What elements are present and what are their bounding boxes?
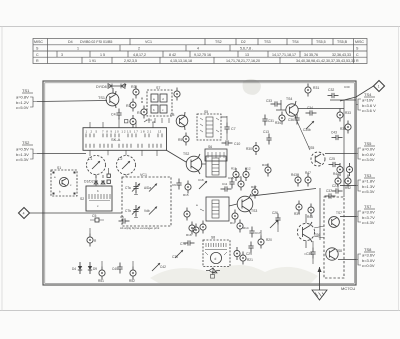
- svg-text:S7: S7: [156, 86, 160, 90]
- svg-text:C36: C36: [288, 118, 294, 122]
- capacitor C4: [111, 109, 122, 120]
- resistor R21: [240, 252, 253, 265]
- svg-text:R5: R5: [178, 138, 182, 142]
- resistor R15: [183, 181, 191, 198]
- resistor R3: [131, 85, 139, 99]
- capacitor C8a: [125, 120, 128, 123]
- wire C1 lead: [96, 175, 126, 187]
- resistor R39: [294, 201, 302, 217]
- svg-text:R: R: [94, 239, 97, 243]
- tuner block VC1: [122, 173, 171, 226]
- svg-text:R: R: [356, 59, 359, 63]
- svg-text:b: b: [59, 190, 61, 194]
- wire rail to border: [330, 99, 356, 101]
- svg-text:C5: C5: [120, 215, 124, 219]
- right label TS4: [362, 92, 376, 113]
- resistor R1: [137, 106, 147, 119]
- svg-text:4: 4: [197, 47, 199, 51]
- capacitor C25: [329, 157, 340, 167]
- resistor R17: [230, 210, 238, 226]
- svg-text:S6: S6: [208, 145, 212, 149]
- diode D7: [96, 84, 117, 89]
- transistor TS4: [286, 97, 298, 119]
- diode D9: [88, 262, 98, 274]
- svg-text:D9: D9: [93, 267, 97, 271]
- filter block S5: [197, 110, 221, 140]
- svg-text:TS7: TS7: [364, 204, 372, 209]
- svg-text:14,17,71,18,17: 14,17,71,18,17: [272, 53, 296, 57]
- svg-text:C10: C10: [234, 142, 240, 146]
- svg-text:C30: C30: [344, 85, 350, 89]
- wire TS2 from label into box: [37, 153, 86, 155]
- svg-text:R17: R17: [230, 221, 236, 225]
- svg-text:R38: R38: [340, 127, 346, 131]
- svg-text:c=4.3V: c=4.3V: [362, 220, 375, 225]
- resistor R6: [130, 115, 136, 128]
- svg-text:S8: S8: [211, 236, 215, 240]
- svg-text:TS4: TS4: [364, 92, 372, 97]
- resistor R43: [291, 173, 301, 187]
- capacitor C6: [107, 168, 110, 183]
- svg-text:R15: R15: [183, 193, 189, 197]
- svg-text:a: a: [153, 97, 155, 101]
- svg-text:C33: C33: [266, 99, 272, 103]
- svg-text:C8: C8: [170, 113, 174, 117]
- svg-text:c: c: [97, 204, 99, 208]
- left label TS1 bracket: [30, 97, 37, 107]
- supply rail vertical: [343, 100, 345, 197]
- right label TS5 bracket: [356, 148, 361, 159]
- svg-text:C15: C15: [228, 176, 234, 180]
- svg-text:S: S: [356, 47, 359, 51]
- capacitor C40: [112, 263, 123, 274]
- svg-text:a=0.5V: a=0.5V: [16, 147, 29, 152]
- resistor R34: [275, 112, 285, 126]
- svg-text:1: 1: [77, 47, 79, 51]
- node marks near R1: [141, 98, 143, 104]
- svg-text:Vdb: Vdb: [144, 209, 150, 213]
- shield box S1: [51, 166, 77, 196]
- svg-text:C4: C4: [111, 113, 116, 117]
- svg-text:S1: S1: [57, 166, 61, 170]
- svg-text:C76: C76: [180, 242, 186, 246]
- wire TS4 emitter to TS5: [296, 119, 310, 150]
- svg-text:3: 3: [61, 53, 63, 57]
- long wire right column: [319, 188, 321, 240]
- svg-text:R34: R34: [275, 121, 281, 125]
- capacitor C29: [246, 242, 254, 257]
- svg-text:VC1: VC1: [145, 40, 152, 44]
- svg-text:VC1: VC1: [140, 173, 147, 177]
- transistor TS8: [326, 248, 342, 260]
- transistor TS2a: [170, 112, 188, 130]
- capacitor C26: [270, 211, 281, 228]
- resistor R38: [340, 121, 351, 134]
- svg-text:C18: C18: [198, 178, 204, 182]
- svg-text:a: a: [196, 203, 198, 207]
- capacitor C9: [172, 179, 182, 190]
- SK-A top contact numbers: [86, 130, 162, 134]
- ground wire: [319, 267, 321, 290]
- svg-text:C26: C26: [272, 211, 278, 215]
- svg-text:R3: R3: [131, 85, 136, 89]
- transistor TS7: [329, 211, 342, 227]
- svg-text:=C39: =C39: [304, 252, 312, 256]
- transistor TS1: [98, 91, 119, 108]
- wire S7 leads: [149, 118, 169, 123]
- svg-text:C2: C2: [118, 157, 122, 161]
- trimmer Vdb: [144, 207, 157, 215]
- svg-text:15 17 18 21: 15 17 18 21: [127, 130, 152, 134]
- svg-text:C75: C75: [172, 255, 178, 259]
- transistor TS5: [308, 146, 325, 166]
- left label TS2 bracket: [30, 149, 37, 159]
- svg-text:MISC: MISC: [355, 40, 364, 44]
- svg-text:DV/B0.02 FSI 01/B5: DV/B0.02 FSI 01/B5: [80, 40, 112, 44]
- resistor R46: [346, 163, 352, 176]
- resistor R40: [262, 163, 271, 177]
- resistor R5: [178, 133, 189, 146]
- wire SK-A to TS2 diagonal: [166, 150, 186, 162]
- svg-text:D2: D2: [241, 40, 246, 44]
- svg-text:R: R: [36, 59, 39, 63]
- ground tick a: [134, 191, 138, 195]
- trimmer ADa: [144, 184, 157, 192]
- IF can dashed box: [324, 197, 344, 278]
- right label TS4 bracket: [356, 99, 361, 110]
- svg-text:C11: C11: [222, 182, 228, 186]
- svg-text:CTb: CTb: [125, 209, 131, 213]
- wire TS6 to IF can: [314, 226, 324, 238]
- SK-A top leads: [90, 118, 153, 128]
- svg-text:TS5,B: TS5,B: [337, 40, 348, 44]
- table MISC/S/C/R grid: [33, 39, 367, 64]
- svg-text:MISC: MISC: [34, 40, 43, 44]
- svg-text:R12: R12: [245, 167, 251, 171]
- svg-text:a=0.8V: a=0.8V: [16, 95, 29, 100]
- svg-text:DY/D8: DY/D8: [96, 85, 107, 89]
- node arrows under S7: [144, 120, 156, 124]
- svg-text:TS4: TS4: [292, 40, 299, 44]
- right label TS3 bracket: [356, 180, 361, 191]
- wire R23 top lead: [89, 228, 91, 234]
- svg-text:C17: C17: [255, 231, 261, 235]
- svg-text:A/Da: A/Da: [144, 186, 151, 190]
- svg-text:C13: C13: [263, 130, 269, 134]
- svg-text:c=3.6 V: c=3.6 V: [362, 108, 376, 113]
- capacitor C36: [288, 114, 300, 125]
- capacitor C22: [211, 271, 215, 278]
- diode D5: [206, 268, 220, 273]
- capacitor C43: [331, 131, 343, 141]
- page top edge line: [0, 26, 400, 28]
- svg-text:c=5.3V: c=5.3V: [16, 157, 29, 162]
- capacitor C17: [249, 227, 260, 238]
- wire TS4 base: [276, 100, 286, 110]
- resistor R56: [184, 208, 190, 221]
- resistor R45: [337, 163, 343, 176]
- shield box S7: [147, 86, 172, 116]
- svg-text:TS4: TS4: [286, 97, 292, 101]
- svg-text:b: b: [153, 108, 155, 112]
- svg-text:R30: R30: [246, 147, 252, 151]
- diode D1: [84, 175, 98, 184]
- svg-text:a: a: [54, 175, 56, 179]
- svg-text:R19: R19: [236, 175, 242, 179]
- svg-text:C5: C5: [92, 214, 96, 218]
- right diamond antenna: [374, 81, 385, 92]
- svg-text:D1/D2: D1/D2: [84, 180, 94, 184]
- svg-text:c=5.3V: c=5.3V: [362, 189, 375, 194]
- svg-text:9,12,75 16: 9,12,75 16: [194, 53, 211, 57]
- svg-text:d: d: [215, 257, 217, 261]
- svg-text:1 91: 1 91: [89, 59, 96, 63]
- svg-text:C40: C40: [112, 267, 118, 271]
- resistor R19: [236, 175, 244, 191]
- capacitor C13: [263, 130, 272, 145]
- svg-text:TS2: TS2: [22, 140, 30, 145]
- filter block S6: [205, 145, 227, 161]
- svg-text:a=0.0V: a=0.0V: [362, 147, 375, 152]
- svg-text:d: d: [162, 97, 164, 101]
- page right edge line: [398, 27, 400, 311]
- wire TS8 to border: [338, 259, 356, 261]
- trimmer C75: [172, 250, 183, 259]
- svg-text:D4: D4: [68, 40, 73, 44]
- resistor R51: [98, 261, 105, 283]
- svg-text:1: 1: [378, 85, 380, 89]
- svg-text:32,36,43,33: 32,36,43,33: [332, 53, 351, 57]
- resistor R52: [129, 261, 136, 283]
- capacitor C34: [306, 106, 317, 116]
- resistor R57: [193, 224, 199, 237]
- resistor R47: [305, 171, 311, 187]
- resistor R48: [307, 204, 314, 220]
- right label TS8: [362, 247, 375, 268]
- transistor TS2: [183, 152, 202, 174]
- svg-text:R52: R52: [129, 279, 135, 283]
- right label TS5: [362, 141, 375, 162]
- svg-text:a=1.8V: a=1.8V: [362, 179, 375, 184]
- wire from right diamond: [340, 86, 374, 101]
- svg-text:a=3.6V: a=3.6V: [362, 253, 375, 258]
- svg-text:C25: C25: [329, 157, 335, 161]
- svg-text:a=3.0V: a=3.0V: [362, 210, 375, 215]
- svg-text:C32: C32: [328, 88, 334, 92]
- wire from left diamond: [30, 212, 123, 214]
- svg-text:34 35,76: 34 35,76: [304, 53, 318, 57]
- wire TS3 collector right: [251, 189, 316, 197]
- diode D4: [72, 262, 82, 274]
- wire TS2 to S3: [201, 163, 206, 165]
- svg-text:c: c: [70, 183, 72, 187]
- svg-text:41: 41: [152, 120, 156, 124]
- svg-text:1 5: 1 5: [100, 53, 105, 57]
- svg-text:34,40,38,98,41,42,30,37,35,43,: 34,40,38,98,41,42,30,37,35,43,53,33: [296, 59, 355, 63]
- svg-text:R2: R2: [126, 104, 131, 108]
- wire TS1 top: [112, 88, 114, 93]
- capacitor C7: [224, 116, 235, 140]
- svg-text:C: C: [356, 53, 359, 57]
- svg-text:TS5: TS5: [364, 141, 372, 146]
- capacitor C27: [332, 184, 343, 194]
- page left edge line: [1, 27, 3, 311]
- svg-text:R42: R42: [345, 186, 351, 190]
- svg-text:c=5.0V: c=5.0V: [16, 105, 29, 110]
- svg-text:C: C: [36, 53, 39, 57]
- svg-text:R47: R47: [305, 171, 311, 175]
- variable capacitor C2: [117, 156, 136, 175]
- resistor R16: [186, 222, 195, 238]
- svg-text:TS8: TS8: [364, 247, 372, 252]
- capacitor C37: [325, 189, 336, 199]
- wire TS7 to border: [340, 216, 356, 218]
- SK-A bottom contacts: [86, 144, 161, 148]
- svg-text:14,71,78,21,77,16,20: 14,71,78,21,77,16,20: [226, 59, 260, 63]
- svg-text:2,92,3,5: 2,92,3,5: [124, 59, 137, 63]
- wire TS6 top lead: [305, 214, 307, 223]
- svg-text:S5: S5: [204, 110, 208, 114]
- capacitor C5b: [119, 215, 130, 224]
- svg-text:C1: C1: [88, 157, 92, 161]
- svg-text:13: 13: [245, 53, 249, 57]
- svg-text:SK-A: SK-A: [111, 137, 121, 142]
- svg-text:R20: R20: [266, 238, 272, 242]
- ground tick b: [134, 214, 138, 218]
- wire TS3 label lead: [340, 185, 356, 187]
- svg-text:TS8: TS8: [336, 249, 342, 253]
- resistor R23: [87, 234, 97, 247]
- trimmer CTb: [125, 205, 140, 216]
- resistor R10: [231, 167, 239, 182]
- svg-text:4: 4: [23, 212, 25, 216]
- svg-text:R48: R48: [307, 215, 313, 219]
- resistor R8: [251, 185, 258, 199]
- resistor R9: [228, 176, 235, 189]
- svg-text:8 42: 8 42: [169, 53, 176, 57]
- capacitor C39: [304, 241, 316, 264]
- svg-text:4,8,17,2: 4,8,17,2: [133, 53, 146, 57]
- switch block S8: [203, 240, 230, 267]
- resistor R31: [305, 84, 319, 97]
- svg-text:R40: R40: [262, 163, 268, 167]
- wire TS4 collector to border: [298, 108, 344, 110]
- svg-text:C42: C42: [160, 265, 166, 269]
- resistor R2: [126, 99, 136, 112]
- svg-text:TS2: TS2: [183, 152, 189, 156]
- svg-text:a=10V: a=10V: [362, 98, 374, 103]
- left label TS1 voltages: [16, 88, 30, 110]
- trimmer CTa: [125, 182, 140, 193]
- trimmer C42: [152, 263, 166, 271]
- svg-text:c=0.0V: c=0.0V: [362, 263, 375, 268]
- wire C26 bottom: [277, 225, 279, 233]
- right label TS7: [362, 204, 375, 225]
- resistor R22: [234, 247, 240, 260]
- svg-text:R44: R44: [333, 172, 339, 176]
- capacitor C11: [221, 182, 232, 192]
- svg-text:2: 2: [138, 47, 140, 51]
- svg-text:R43: R43: [291, 173, 297, 177]
- svg-text:C7: C7: [231, 127, 236, 131]
- right label TS8 bracket: [356, 254, 361, 265]
- svg-text:C9: C9: [172, 183, 176, 187]
- right label TS3: [362, 173, 375, 194]
- wire C7 top: [221, 116, 227, 118]
- switch block SK-A: [83, 128, 167, 151]
- svg-text:R11: R11: [231, 167, 237, 171]
- capacitor C33: [266, 99, 282, 107]
- resistor R12: [243, 167, 251, 182]
- capacitor C76: [180, 240, 195, 246]
- wire R20 top lead: [260, 230, 262, 236]
- svg-text:TS7: TS7: [336, 211, 342, 215]
- svg-text:c=3.0V: c=3.0V: [362, 157, 375, 162]
- transformer S3: [206, 156, 226, 177]
- svg-text:C34: C34: [307, 106, 313, 110]
- svg-text:R14: R14: [243, 226, 249, 230]
- svg-text:R17: R17: [251, 185, 257, 189]
- svg-text:R21: R21: [247, 258, 253, 262]
- trimmer C35b: [303, 121, 314, 132]
- wire S4 to TS3 base: [229, 204, 237, 206]
- diode D2: [101, 175, 105, 184]
- svg-text:R1: R1: [137, 111, 142, 115]
- svg-text:7 8 9 10 12: 7 8 9 10 12: [102, 130, 126, 134]
- resistor R4: [174, 88, 180, 101]
- svg-text:D4: D4: [72, 267, 76, 271]
- svg-text:C43: C43: [331, 131, 337, 135]
- SK-A bottom leads: [90, 150, 157, 156]
- svg-text:4,15,13,16,18: 4,15,13,16,18: [170, 59, 192, 63]
- variable capacitor C1: [87, 156, 106, 175]
- svg-text:C35b: C35b: [303, 128, 311, 132]
- resistor R30: [246, 142, 259, 155]
- svg-text:S: S: [36, 47, 39, 51]
- right label TS7 bracket: [356, 211, 361, 222]
- svg-text:R31: R31: [313, 86, 319, 90]
- main schematic border: [43, 81, 356, 285]
- svg-text:MC7CU: MC7CU: [341, 286, 355, 291]
- page bottom edge line: [0, 310, 400, 312]
- scan smudge top middle: [243, 79, 261, 95]
- resistor R14: [237, 220, 249, 233]
- svg-text:C31: C31: [268, 119, 274, 123]
- wire TS6 bottom lead: [305, 241, 307, 248]
- svg-text:TS1: TS1: [22, 88, 30, 93]
- svg-text:TS5,5: TS5,5: [316, 40, 326, 44]
- svg-text:TS1: TS1: [98, 96, 105, 100]
- svg-text:R33: R33: [345, 111, 351, 115]
- input diamond left: [19, 208, 30, 219]
- trimmer C18: [198, 178, 207, 189]
- wire TS1 from label to transistor: [37, 101, 107, 102]
- capacitor C10: [222, 140, 241, 146]
- svg-text:A4 wijzig bij het vervangen pr: A4 wijzig bij het vervangen print: [120, 226, 160, 230]
- transformer S4: [196, 197, 229, 221]
- resistor R33: [337, 109, 351, 122]
- svg-text:C29: C29: [246, 252, 252, 256]
- capacitor C5: [90, 214, 104, 222]
- capacitor C32: [328, 88, 339, 98]
- resistor R20: [258, 236, 272, 249]
- SK-A top contacts: [86, 134, 162, 138]
- coil block S2: [80, 186, 112, 211]
- svg-text:b: b: [97, 189, 99, 193]
- svg-text:C27: C27: [332, 184, 338, 188]
- capacitor C31: [262, 115, 274, 126]
- svg-text:C37: C37: [326, 189, 332, 193]
